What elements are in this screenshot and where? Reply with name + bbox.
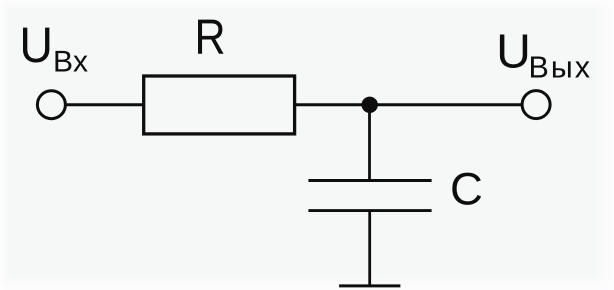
junction node A	[362, 97, 378, 113]
ground	[339, 284, 400, 287]
capacitor C	[308, 181, 431, 211]
label U_Bx (input voltage)	[23, 28, 88, 72]
wire input terminal to resistor	[65, 103, 143, 106]
label R	[198, 20, 224, 54]
label U_Byx (output voltage)	[500, 34, 590, 77]
node output terminal	[522, 91, 550, 119]
node input terminal	[37, 91, 65, 119]
resistor R	[144, 76, 295, 134]
wire node A to capacitor	[368, 105, 371, 179]
label C	[452, 173, 481, 205]
wire capacitor to ground	[368, 212, 371, 285]
wire resistor to output terminal	[295, 103, 522, 106]
